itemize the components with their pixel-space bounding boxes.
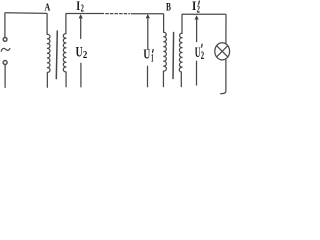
node terminal top circle	[3, 38, 7, 42]
node terminal bottom circle	[3, 61, 7, 65]
current arrow I2' shaft	[196, 18, 198, 42]
svg-text:U: U	[143, 46, 150, 62]
wire source bottom lead	[4, 65, 6, 88]
wire secondary lead T2	[181, 14, 184, 33]
wire T2 secondary bottom tail	[180, 72, 182, 87]
svg-text:1: 1	[151, 51, 154, 64]
svg-text:2: 2	[81, 2, 84, 14]
prime of U1'	[152, 50, 155, 53]
transformer T2 primary coil	[163, 32, 166, 71]
wire top segment 2	[67, 13, 104, 15]
voltage line U2	[80, 63, 82, 87]
transformer T1 primary coil	[47, 34, 50, 72]
wire T1 secondary bottom tail	[65, 72, 67, 87]
transformer T2 secondary coil	[179, 33, 182, 72]
voltage line U1' lower	[147, 66, 149, 86]
svg-text:B: B	[166, 1, 171, 14]
wire T1 primary bottom tail	[46, 73, 48, 88]
wire top segment 4	[183, 14, 226, 44]
svg-text:2: 2	[197, 3, 201, 15]
prime of I2'	[198, 1, 201, 4]
svg-text:A: A	[45, 1, 51, 14]
wire T2 primary bottom tail	[162, 71, 164, 86]
svg-text:2: 2	[83, 51, 88, 62]
AC source tilde	[1, 48, 10, 51]
transformer T1 core	[56, 31, 57, 79]
arrowhead I2	[79, 14, 83, 18]
voltage line U2'	[196, 61, 198, 85]
current arrow I2 shaft	[80, 17, 82, 39]
prime of U2'	[201, 44, 204, 47]
transformer T1 secondary coil	[63, 34, 66, 72]
svg-text:2: 2	[201, 50, 205, 62]
svg-text:U: U	[76, 44, 83, 61]
lamp EL circle	[215, 43, 230, 60]
wire top segment 3	[131, 14, 163, 32]
transformer T2 core	[172, 33, 175, 79]
lamp cross stroke 2	[217, 46, 228, 57]
arrowhead U1'	[146, 14, 150, 18]
wire top-left horizontal and left vertical	[5, 13, 47, 38]
svg-text:U: U	[195, 43, 201, 60]
arrowhead I2'	[195, 15, 199, 19]
wire transmission dashed line	[106, 13, 130, 15]
lamp cross stroke 1	[217, 46, 228, 57]
wire secondary lead T1	[65, 14, 68, 34]
wire lamp bottom lead with hook	[221, 59, 226, 94]
svg-text:I: I	[76, 0, 80, 14]
voltage arrow U1' shaft	[147, 17, 149, 50]
svg-text:I: I	[192, 0, 197, 13]
